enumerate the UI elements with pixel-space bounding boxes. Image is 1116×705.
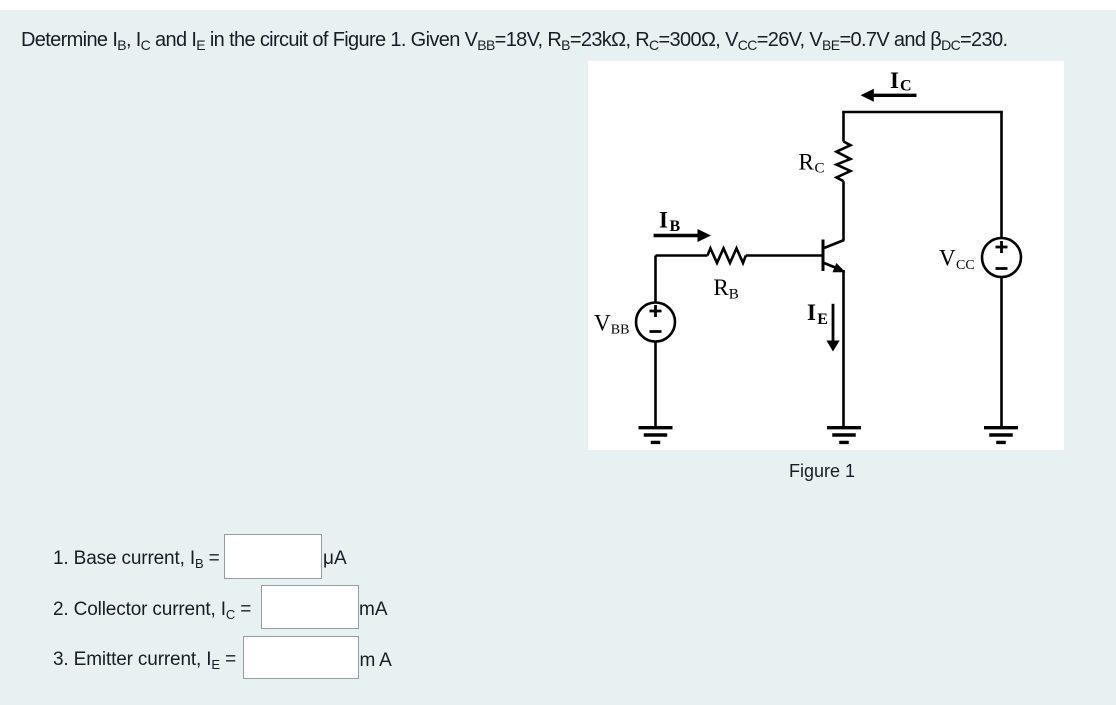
svg-text:CC: CC: [956, 258, 975, 273]
svg-text:C: C: [900, 78, 912, 95]
svg-text:R: R: [799, 150, 815, 175]
svg-text:C: C: [815, 161, 825, 177]
svg-text:B: B: [729, 287, 739, 303]
svg-text:I: I: [659, 208, 668, 233]
svg-text:V: V: [939, 246, 956, 271]
svg-text:B: B: [670, 218, 681, 235]
svg-text:V: V: [594, 310, 611, 335]
svg-text:I: I: [890, 68, 899, 93]
svg-text:E: E: [817, 311, 828, 328]
svg-text:R: R: [713, 275, 729, 300]
svg-text:I: I: [807, 300, 816, 325]
svg-text:BB: BB: [611, 323, 630, 338]
